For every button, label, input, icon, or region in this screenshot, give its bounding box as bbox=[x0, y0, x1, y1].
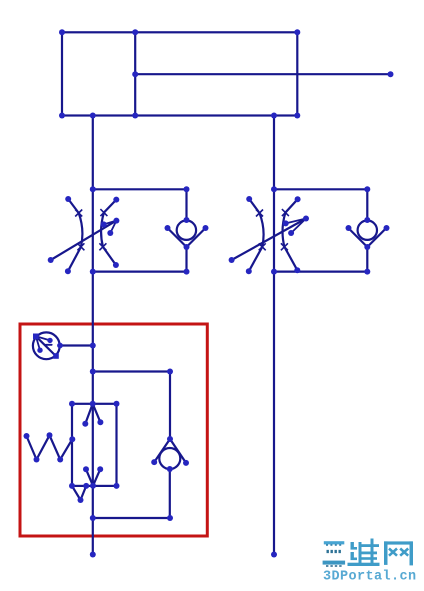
svg-text:3DPortal.cn: 3DPortal.cn bbox=[323, 570, 417, 585]
